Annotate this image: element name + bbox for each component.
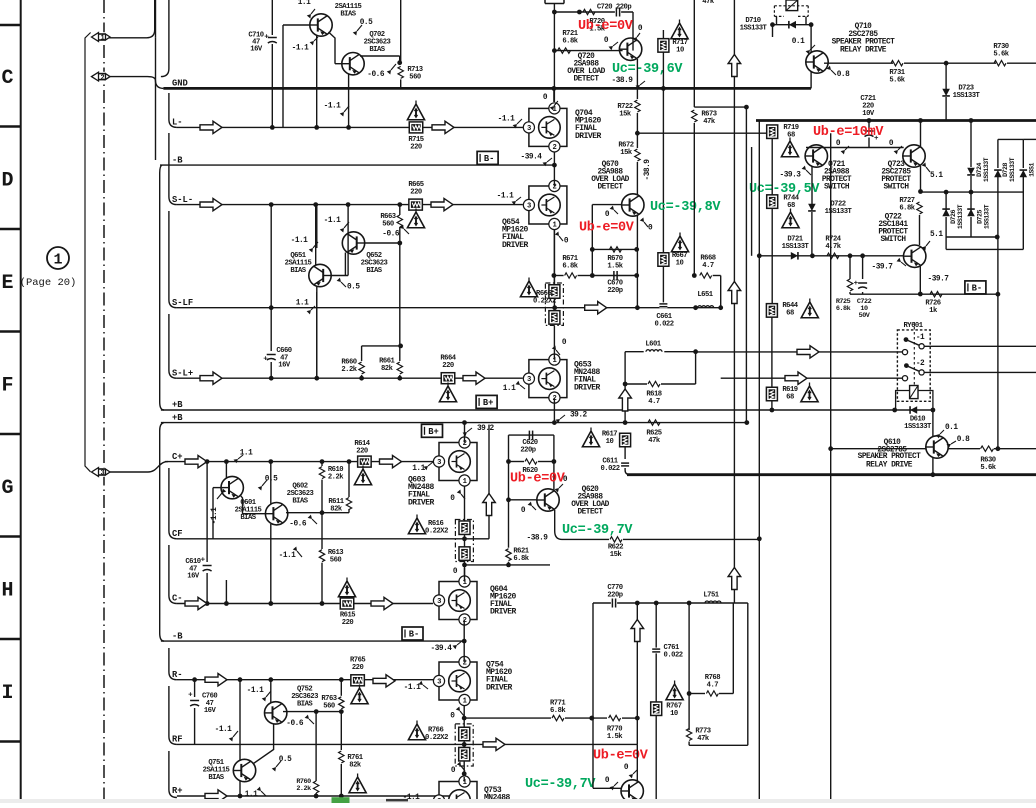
- svg-text:Uc=-39,6V: Uc=-39,6V: [612, 62, 683, 77]
- resistor R760 2.2k: [313, 781, 318, 793]
- capacitor C611 0.022: [621, 462, 629, 468]
- wire Q654 pin2 to -B rail: [553, 165, 555, 186]
- resistor R768 4.7: [706, 691, 718, 696]
- R+ rail arrow: [205, 790, 227, 802]
- resistor R727 6.8k: [917, 202, 922, 214]
- svg-text:-1.1: -1.1: [404, 684, 422, 692]
- svg-text:16V: 16V: [278, 362, 291, 370]
- wire Q651 emitter down to S-L+ rail: [316, 287, 318, 379]
- svg-text:F: F: [1, 375, 13, 398]
- bottom scan edge strip: [0, 799, 1036, 803]
- wire y=107.1: [694, 106, 746, 108]
- svg-text:-39.4: -39.4: [431, 645, 453, 653]
- svg-text:DETECT: DETECT: [573, 76, 599, 84]
- svg-text:DETECT: DETECT: [577, 509, 603, 517]
- vertical x=746.4 down to +B2 rail: [745, 107, 747, 423]
- resistor R771 6.8k: [552, 715, 564, 720]
- svg-text:5.1: 5.1: [930, 231, 943, 239]
- capacitor C610 47 16V: [206, 462, 208, 562]
- svg-text:S-L+: S-L+: [172, 368, 193, 378]
- svg-text:4.7: 4.7: [707, 682, 719, 690]
- svg-text:220: 220: [342, 619, 354, 627]
- svg-text:82k: 82k: [381, 365, 394, 373]
- svg-text:BIAS: BIAS: [240, 514, 256, 522]
- fusible resistor R667 10: [658, 253, 669, 267]
- warning triangle R717: [671, 23, 688, 39]
- relay actuator dashed line: [913, 322, 915, 385]
- resistor R726 1k: [930, 292, 942, 297]
- svg-text:6.8k: 6.8k: [562, 38, 578, 46]
- wire Q651 base to bias node: [331, 275, 349, 277]
- wire Q602 base line to R611: [286, 512, 322, 514]
- svg-text:DRIVER: DRIVER: [574, 383, 601, 392]
- svg-text:3: 3: [437, 459, 441, 467]
- B+ flag box C: [422, 424, 443, 437]
- svg-text:+B: +B: [172, 413, 183, 423]
- wire x=997.9 down: [997, 237, 999, 449]
- svg-text:BIAS: BIAS: [369, 46, 385, 54]
- warning triangle R744: [782, 212, 799, 228]
- svg-text:1SS133T: 1SS133T: [984, 204, 991, 229]
- svg-text:1.1: 1.1: [412, 465, 425, 473]
- wire Q754 pin1 down: [463, 706, 465, 727]
- transistor Q702 2SC3623 BIAS: [342, 53, 364, 75]
- thick supply rail y=120.5: [756, 119, 1036, 122]
- signal arrow C+: [185, 455, 207, 467]
- svg-text:3: 3: [527, 203, 531, 211]
- svg-text:1.1: 1.1: [503, 385, 516, 393]
- svg-text:D724: D724: [976, 163, 983, 177]
- svg-text:-0.6: -0.6: [289, 521, 307, 529]
- wire from connector 2 into GND rail: [110, 77, 164, 89]
- resistor R730 5.6k: [994, 61, 1006, 66]
- svg-text:DRIVER: DRIVER: [502, 241, 529, 250]
- resistor R725 6.8k and capacitor C722: [849, 256, 851, 279]
- svg-text:1.1: 1.1: [298, 0, 311, 7]
- svg-text:1: 1: [100, 35, 104, 43]
- wire top box down to GND: [553, 4, 555, 103]
- svg-text:39.2: 39.2: [570, 412, 588, 420]
- resistor R621 6.8k: [506, 549, 511, 561]
- up arrow CF: [488, 425, 490, 539]
- svg-text:DRIVER: DRIVER: [486, 683, 513, 692]
- svg-text:L601: L601: [645, 341, 661, 349]
- transistor Q652 2SC3623 BIAS: [342, 232, 364, 254]
- svg-text:10: 10: [676, 47, 684, 55]
- inductor L651: [698, 306, 714, 308]
- wire Q720 collector chain: [636, 59, 638, 99]
- svg-text:15k: 15k: [619, 111, 632, 119]
- warning triangle R766: [408, 724, 425, 740]
- wire Q753 pin1 up: [463, 777, 465, 782]
- svg-text:10: 10: [670, 710, 678, 718]
- svg-text:15k: 15k: [620, 149, 633, 157]
- svg-text:D728: D728: [1002, 163, 1009, 177]
- -B rail wire: [161, 640, 464, 642]
- wire Q620 emitter down: [555, 510, 562, 539]
- svg-text:2.2k: 2.2k: [328, 474, 344, 482]
- wire Q601 base: [213, 487, 222, 489]
- svg-text:B-: B-: [409, 630, 420, 640]
- svg-text:Ub-e=0V: Ub-e=0V: [510, 472, 566, 487]
- bus segment -B rail down to +B rail: [160, 165, 164, 410]
- wire Q704 pin2 to -B rail: [553, 152, 555, 165]
- wire Q653 pin1 up through R666: [553, 326, 555, 360]
- svg-text:-1.1: -1.1: [498, 116, 516, 124]
- svg-text:0.022: 0.022: [664, 652, 683, 660]
- fusible resistor R614 220: [358, 456, 372, 467]
- svg-text:560: 560: [330, 557, 342, 565]
- S-LF rail wire: [177, 307, 721, 309]
- wire R725/C722 bottom: [849, 292, 851, 294]
- wire Q751 emitter down to R+ rail: [239, 781, 241, 797]
- page boundary dash-dot line: [103, 0, 105, 803]
- resistor R773 47k: [686, 729, 691, 741]
- warning triangle R615: [338, 581, 355, 597]
- svg-text:D726: D726: [950, 210, 957, 224]
- svg-text:82k: 82k: [330, 506, 343, 514]
- wire Q601 emitter up to C+ rail: [225, 462, 227, 478]
- wire x=637.3 with up arrow: [636, 603, 638, 744]
- wire Q702 base from Q701: [335, 63, 342, 65]
- wire R727 to Q722: [919, 215, 921, 245]
- warning triangle R664: [439, 386, 456, 402]
- B- flag box: [477, 151, 498, 164]
- resistor R611 82k: [348, 462, 350, 497]
- svg-text:15k: 15k: [610, 551, 623, 559]
- resistor R613 560: [319, 550, 324, 562]
- svg-text:-1.1: -1.1: [324, 103, 342, 111]
- svg-text:3: 3: [527, 376, 531, 384]
- wire Q603 pin2 up to +B2 rail: [464, 423, 466, 443]
- svg-text:220: 220: [410, 144, 422, 152]
- svg-text:2: 2: [100, 74, 104, 82]
- svg-text:68: 68: [786, 394, 794, 402]
- signal arrow S-L-: [200, 198, 222, 210]
- resistor R622 15k: [610, 537, 622, 542]
- diode D722 1SS133T: [808, 204, 816, 211]
- capacitor C720 220p: [615, 8, 621, 17]
- fusible resistor R719 68: [767, 125, 778, 139]
- wire R667 down to C661: [662, 266, 664, 303]
- svg-text:SPEAKER PROTECT: SPEAKER PROTECT: [858, 453, 922, 461]
- svg-text:1k: 1k: [929, 307, 938, 315]
- connector <2>: [91, 72, 111, 82]
- svg-text:S-LF: S-LF: [172, 298, 193, 308]
- wire R773 bottom to x=747.8: [689, 744, 748, 746]
- svg-text:-39.4: -39.4: [521, 154, 543, 162]
- svg-text:Uc=-39,8V: Uc=-39,8V: [650, 200, 721, 215]
- fusible resistor R766 0.22X2 pair: [455, 724, 473, 766]
- svg-text:0.22X2: 0.22X2: [425, 734, 448, 742]
- svg-text:0.1: 0.1: [945, 424, 958, 432]
- svg-text:2: 2: [552, 144, 556, 152]
- C- rail wire: [177, 603, 433, 605]
- svg-text:RELAY DRIVE: RELAY DRIVE: [840, 46, 887, 54]
- border tick marks: [0, 24, 21, 27]
- bus segment feeding R+ rail: [169, 751, 177, 798]
- capacitor C661 0.022: [659, 302, 667, 308]
- transistor Q723 2SC2785 PROTECT SWITCH: [903, 145, 925, 167]
- svg-text:B-: B-: [972, 283, 983, 293]
- svg-text:CF: CF: [172, 529, 183, 539]
- svg-text:-1.1: -1.1: [324, 217, 342, 225]
- final driver Q753 MN2488 partial: [439, 782, 477, 808]
- svg-text:BIAS: BIAS: [290, 267, 306, 275]
- svg-text:1SS133T: 1SS133T: [825, 208, 853, 216]
- diode D723 1SS133T: [945, 63, 947, 89]
- svg-text:220: 220: [352, 664, 364, 672]
- wire Q751 collector to Q752: [254, 724, 274, 764]
- wire R673 lower: [693, 123, 695, 134]
- svg-text:3: 3: [437, 679, 441, 687]
- transistor Q770 over load detect partial: [621, 780, 643, 802]
- wire Q702 collector to R713 node: [360, 55, 400, 57]
- svg-text:47k: 47k: [702, 0, 715, 6]
- fusible resistor R767 10: [651, 702, 662, 716]
- final driver Q704 MP1620: [529, 108, 567, 146]
- transistor Q620 2SA988 OVER LOAD DETECT: [537, 489, 559, 511]
- svg-text:0.8: 0.8: [837, 71, 850, 79]
- wire R730 to right edge: [1007, 62, 1036, 64]
- wire R731 to R730: [904, 62, 996, 64]
- signal arrow R-: [205, 674, 227, 686]
- svg-text:220: 220: [410, 189, 422, 197]
- CF rail wire: [177, 538, 489, 540]
- svg-text:-1.1: -1.1: [292, 45, 310, 53]
- wire R617 down to C611: [624, 447, 626, 459]
- overload detect Q670 base network: [591, 205, 593, 276]
- svg-text:0.8: 0.8: [957, 436, 970, 444]
- relay -1 output wire: [924, 345, 1036, 347]
- svg-text:2SC2785: 2SC2785: [848, 31, 878, 39]
- svg-text:5.6k: 5.6k: [980, 464, 996, 472]
- resistor R720 1.5k: [583, 9, 595, 14]
- S-L- rail wire: [177, 204, 523, 206]
- capacitor C770 220p: [611, 599, 617, 608]
- svg-text:BIAS: BIAS: [208, 774, 224, 782]
- svg-text:47k: 47k: [697, 735, 710, 743]
- wire R722 to R672: [636, 113, 638, 148]
- +B rail wire: [161, 422, 747, 424]
- wire Q610 collector to D610 node: [932, 410, 934, 437]
- bus segment feeding S-L+ rail: [169, 314, 177, 378]
- C- section output wire: [593, 602, 748, 604]
- wire Q652 base wire: [364, 242, 400, 244]
- fusible resistor R717 10: [658, 39, 669, 53]
- wire Q723 collector to thick rail: [920, 121, 922, 148]
- svg-text:6.8k: 6.8k: [550, 707, 566, 715]
- svg-text:3: 3: [437, 598, 441, 606]
- wire Q701 base: [283, 24, 310, 26]
- svg-text:RY601: RY601: [903, 322, 923, 330]
- signal arrow S-L+: [200, 372, 222, 384]
- svg-text:6.8k: 6.8k: [899, 205, 915, 213]
- warning triangle R619: [801, 386, 818, 402]
- connector <3>: [91, 467, 111, 477]
- wire R719 feed: [637, 132, 766, 134]
- wire C611 to thick rail: [625, 468, 630, 475]
- wire R619 to +B rail: [771, 401, 773, 410]
- relay contact -1: [904, 337, 909, 342]
- svg-text:560: 560: [409, 74, 421, 82]
- resistor R671 6.8k: [565, 273, 577, 278]
- svg-text:47k: 47k: [703, 118, 716, 126]
- wire Q604 pin2 to -B2 rail: [463, 620, 465, 642]
- svg-text:Ub-e=0V: Ub-e=0V: [578, 19, 634, 34]
- svg-text:1SS133T: 1SS133T: [957, 204, 964, 229]
- wire R717 top: [662, 30, 664, 39]
- svg-text:DETECT: DETECT: [597, 184, 623, 192]
- svg-text:-B: -B: [172, 155, 183, 165]
- wire R644 down to R619: [771, 317, 773, 387]
- svg-text:-0.6: -0.6: [382, 231, 400, 239]
- wire Q710 collector output: [824, 62, 893, 64]
- resistor R664 220 box: [441, 373, 455, 384]
- relay coil bracket: [896, 391, 933, 411]
- wire Q752 base vertical: [270, 680, 272, 703]
- transistor Q610 2SC2785 relay drive: [926, 436, 948, 458]
- svg-text:47k: 47k: [648, 437, 661, 445]
- final driver Q603 MN2488: [439, 443, 477, 481]
- transistor Q720 2SA988 OVER LOAD DETECT: [619, 38, 641, 60]
- wire Q654 pin1 down: [553, 230, 555, 286]
- svg-text:SWITCH: SWITCH: [883, 184, 909, 192]
- inductor L751: [705, 601, 721, 603]
- fusible resistor R715 220: [409, 122, 423, 133]
- svg-text:6.8k: 6.8k: [836, 305, 851, 313]
- wire from connector 1 to top bus: [109, 0, 155, 38]
- transistor Q651 2SA1115 BIAS: [309, 264, 331, 286]
- svg-text:4.7: 4.7: [702, 262, 714, 270]
- transistor Q721 2SA988 PROTECT SWITCH: [805, 145, 827, 167]
- svg-text:Uc=-39,7V: Uc=-39,7V: [562, 523, 633, 538]
- final driver Q654 MP1620: [529, 186, 567, 224]
- fusible resistor R617 10: [620, 433, 631, 447]
- transistor Q710 2SC2785 relay drive: [806, 51, 828, 73]
- signal arrow after R664: [463, 372, 485, 384]
- transistor Q701 2SA1115 BIAS: [310, 14, 332, 36]
- wire Q620 base from divider: [509, 499, 538, 501]
- signal arrow after R614: [380, 455, 402, 467]
- resistors R660 2.2k R661 82k: [362, 345, 401, 347]
- capacitor C710 47 16V: [271, 0, 273, 127]
- svg-text:-38.9: -38.9: [612, 77, 634, 85]
- resistor R731 5.6k: [891, 61, 903, 66]
- wire R663 to Q652 base node: [399, 205, 401, 215]
- signal arrow after R715: [432, 121, 454, 133]
- warning triangle R765: [351, 688, 368, 704]
- warning triangle R614: [354, 469, 371, 485]
- wire x=316.8 S-L- to S-L+: [316, 205, 318, 248]
- vertical x=830.7 long: [830, 133, 832, 803]
- wire Q701 emitter to L- rail: [316, 35, 318, 127]
- transistor Q670 2SA988 OVER LOAD DETECT: [622, 194, 644, 216]
- page reference symbol (1) (Page 20): [47, 247, 69, 269]
- wire Q710 emitter to GND elbow: [810, 72, 812, 88]
- L- rail wire: [177, 126, 524, 128]
- svg-text:68: 68: [786, 310, 794, 318]
- diode D710 symbol: [773, 24, 812, 26]
- B- flag box R section: [402, 627, 423, 640]
- svg-text:-0.6: -0.6: [286, 720, 304, 728]
- R- rail wire: [177, 679, 434, 681]
- svg-text:SPEAKER PROTECT: SPEAKER PROTECT: [832, 39, 896, 47]
- svg-text:1SS1: 1SS1: [1029, 163, 1036, 177]
- svg-text:16V: 16V: [187, 573, 200, 581]
- svg-text:D: D: [1, 170, 13, 193]
- svg-text:1SS133T: 1SS133T: [740, 25, 768, 33]
- vertical x=747.8: [747, 603, 749, 745]
- signal arrow to relay -2: [785, 372, 807, 384]
- diode D610 1SS133T: [895, 409, 933, 411]
- resistor R625 47k: [648, 420, 660, 425]
- thick rail y=474.7: [627, 473, 1036, 476]
- interconnect bracket wire: [85, 33, 91, 472]
- svg-text:-2: -2: [916, 360, 925, 368]
- relay coil symbol: [910, 386, 918, 399]
- svg-text:50V: 50V: [859, 312, 871, 320]
- svg-text:Ub-e=0V: Ub-e=0V: [579, 221, 635, 236]
- bus segment feeding L- rail: [169, 93, 177, 127]
- transistor Q752 2SC3623 BIAS: [265, 702, 287, 724]
- fusible resistor R644 68: [766, 304, 777, 318]
- svg-text:1: 1: [53, 252, 62, 269]
- capacitor C670 220p: [612, 271, 618, 280]
- B+ flag box SL: [476, 395, 497, 408]
- svg-text:BIAS: BIAS: [366, 267, 382, 275]
- B- flag box right: [965, 281, 986, 294]
- svg-text:-39.7: -39.7: [928, 276, 950, 284]
- inner bus vertical x=168.9 top: [161, 0, 169, 77]
- warning triangle x=357: [349, 777, 366, 793]
- svg-text:Ub-e=10mV: Ub-e=10mV: [813, 125, 884, 140]
- wire Q601 collector to Q602: [241, 496, 267, 514]
- vertical line x=694.3: [693, 0, 695, 107]
- final driver Q604 MP1620: [439, 582, 477, 620]
- svg-text:-1.1: -1.1: [497, 193, 515, 201]
- relay -2 output wire: [924, 371, 1036, 373]
- up arrow on x=625 line: [619, 389, 632, 411]
- S-L+ rail wire: [177, 377, 523, 379]
- svg-text:E: E: [1, 272, 13, 295]
- fusible resistor R619 68: [766, 387, 777, 401]
- svg-text:D725: D725: [977, 210, 984, 224]
- svg-text:1SS133T: 1SS133T: [782, 243, 810, 251]
- svg-text:SWITCH: SWITCH: [824, 184, 850, 192]
- diode D721 1SS133T: [791, 252, 798, 260]
- wire Q723 emitter down: [920, 166, 922, 192]
- wire GND to Q704 pin1: [553, 88, 555, 102]
- wire Q652 emitter to Q651 base node: [344, 253, 346, 276]
- svg-text:4.7k: 4.7k: [825, 243, 841, 251]
- svg-text:39.2: 39.2: [477, 425, 495, 433]
- svg-text:0.1: 0.1: [792, 38, 805, 46]
- wire Q721 collector down: [811, 166, 813, 204]
- bus segment feeding CF rail: [169, 468, 177, 539]
- svg-text:220: 220: [442, 362, 454, 370]
- relay contact -2: [904, 363, 909, 368]
- GND rail wire: [163, 87, 811, 90]
- signal arrow S-LF: [585, 302, 607, 314]
- wire Q604 pin1 up: [464, 568, 466, 582]
- svg-text:560: 560: [382, 221, 394, 229]
- signal arrow after R615: [371, 597, 393, 609]
- signal arrow C-: [185, 597, 207, 609]
- wire Q602 emitter up: [270, 462, 272, 504]
- svg-text:1SS133T: 1SS133T: [904, 423, 932, 431]
- wire Q702 emitter to L- rail: [348, 74, 350, 127]
